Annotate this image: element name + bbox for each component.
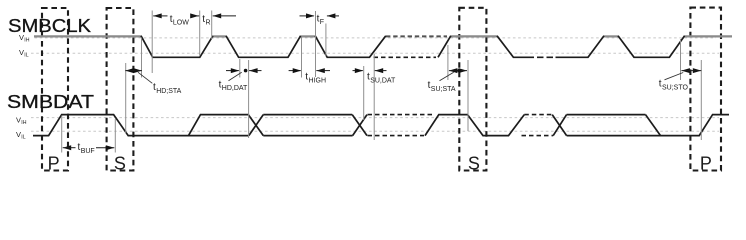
svg-text:HIGH: HIGH (309, 77, 327, 84)
svg-text:LOW: LOW (173, 20, 189, 27)
svg-text:IH: IH (24, 38, 29, 44)
svg-text:P: P (48, 153, 60, 173)
svg-text:IL: IL (21, 135, 25, 141)
svg-text:S: S (468, 153, 480, 173)
svg-text:R: R (206, 20, 211, 27)
svg-text:V: V (19, 48, 24, 57)
svg-text:V: V (16, 116, 21, 125)
svg-text:SMBDAT: SMBDAT (7, 91, 94, 112)
svg-text:V: V (19, 33, 24, 42)
svg-text:IH: IH (21, 120, 26, 126)
svg-text:SU;STA: SU;STA (431, 86, 456, 93)
svg-text:P: P (700, 153, 712, 173)
svg-text:SU;STO: SU;STO (662, 84, 688, 91)
svg-text:F: F (320, 19, 324, 26)
svg-text:SU,DAT: SU,DAT (370, 77, 396, 84)
svg-text:V: V (16, 130, 21, 139)
svg-text:S: S (114, 153, 126, 173)
svg-text:BUF: BUF (81, 148, 95, 155)
svg-text:HD,DAT: HD,DAT (222, 85, 248, 92)
svg-text:HD;STA: HD;STA (156, 88, 181, 95)
svg-text:IL: IL (24, 53, 28, 59)
